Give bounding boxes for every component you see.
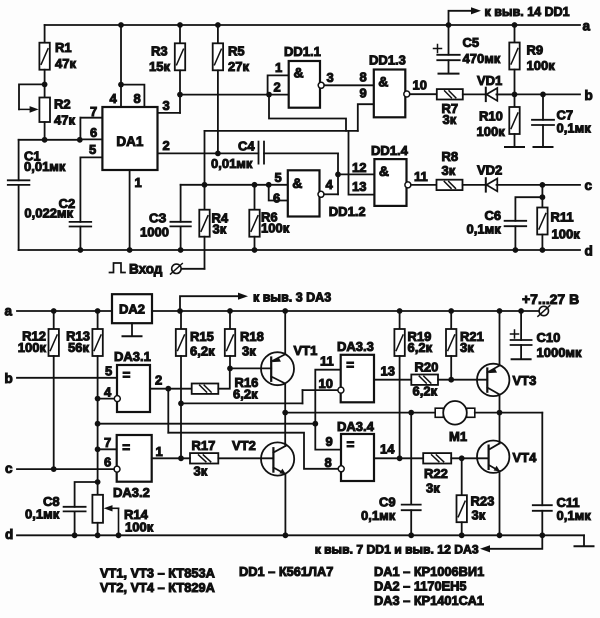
ground rail d [583, 535, 585, 546]
DA1 pin 2 [158, 152, 259, 154]
ground C10 [512, 358, 531, 360]
wire rail a (lower) +supply [17, 310, 112, 312]
svg-text:12: 12 [352, 160, 366, 175]
logic gate DD1.4 [374, 159, 406, 206]
svg-text:13: 13 [381, 364, 395, 379]
ground R10 [505, 146, 524, 148]
junction VT3 base [448, 377, 454, 383]
svg-text:R22: R22 [424, 466, 448, 481]
regulator DA2 [112, 294, 152, 323]
wire rail d (top) [19, 249, 580, 251]
svg-text:VD2: VD2 [477, 163, 502, 178]
capacitor C5 [448, 25, 450, 55]
wire to DD1.4 pin 13 [349, 131, 375, 195]
resistor R2 (trimmer) [44, 84, 46, 97]
DA3.3 output pin 13 [374, 379, 411, 381]
svg-text:8: 8 [325, 455, 332, 470]
svg-text:3к: 3к [194, 464, 208, 479]
svg-text:R11: R11 [551, 210, 574, 225]
svg-text:3к: 3к [242, 344, 256, 359]
comparator DA3.4 [341, 434, 374, 481]
svg-text:5: 5 [105, 364, 112, 379]
DA3.2 pin 7 [98, 448, 117, 450]
svg-text:47к: 47к [55, 56, 76, 71]
ground DA2 [131, 323, 133, 336]
svg-text:4: 4 [326, 177, 334, 192]
svg-text:3к: 3к [426, 481, 440, 496]
resistor R7 [437, 89, 463, 99]
wire VT4 emitter to rail d [499, 471, 501, 535]
svg-text:DD1.4: DD1.4 [371, 143, 409, 158]
transistor VT1 [261, 352, 294, 385]
svg-text:100к: 100к [477, 124, 506, 139]
wire R22 to VT4 base [451, 457, 488, 459]
svg-text:6: 6 [273, 191, 280, 206]
svg-text:2: 2 [163, 138, 170, 153]
svg-text:4: 4 [110, 91, 118, 106]
DA1 pin 7 [80, 117, 102, 119]
svg-text:5: 5 [275, 170, 282, 185]
motor M1 [435, 408, 443, 417]
svg-text:=: = [346, 358, 354, 373]
junction R1-R2 [42, 82, 48, 88]
wire stair pin2 node to Q line [269, 95, 346, 131]
svg-text:=: = [122, 440, 130, 455]
resistor R23 [461, 458, 463, 495]
svg-text:11: 11 [320, 354, 334, 369]
svg-text:6,2к: 6,2к [190, 344, 215, 359]
resistor R3 [177, 22, 183, 28]
DA1 pin 5 [80, 156, 102, 158]
svg-text:R10: R10 [479, 109, 503, 124]
logic gate DD1.1 [289, 61, 320, 108]
svg-text:27к: 27к [228, 59, 249, 74]
svg-text:9: 9 [360, 86, 367, 101]
svg-text:470мк: 470мк [463, 51, 501, 66]
wire Q to R4 node [204, 131, 206, 185]
resistor R16 [192, 384, 219, 394]
wire to DA3.3 pin 10 [181, 402, 303, 404]
svg-text:2: 2 [155, 373, 162, 388]
svg-text:к выв. 7 DD1 и выв. 12 DA3: к выв. 7 DD1 и выв. 12 DA3 [315, 543, 479, 557]
svg-text:VT2: VT2 [232, 438, 256, 453]
svg-text:R2: R2 [54, 97, 71, 112]
wire VD1 to rail b [497, 93, 515, 95]
svg-text:VT1: VT1 [294, 343, 318, 358]
DA1 pin 3 [158, 112, 181, 114]
svg-text:C4: C4 [238, 139, 255, 154]
svg-text:DD1.1: DD1.1 [284, 44, 321, 59]
svg-text:d: d [585, 244, 593, 259]
svg-text:3к: 3к [460, 340, 474, 355]
wire to DD1.3 pin 9 [358, 104, 374, 131]
svg-text:14: 14 [380, 442, 395, 457]
DD1.2 output bubble [318, 191, 324, 197]
svg-text:1: 1 [135, 175, 142, 190]
resistor R6 [254, 185, 256, 210]
svg-text:b: b [585, 88, 593, 103]
svg-text:c: c [585, 178, 593, 193]
svg-text:100к: 100к [527, 58, 556, 73]
wire to DD1.4 pin 12 [338, 173, 374, 175]
capacitor C11 [533, 504, 552, 506]
resistor R20 [411, 375, 438, 385]
terminal +7...27V [539, 306, 548, 315]
wire VT2 emitter to rail d [284, 474, 286, 535]
svg-text:0,1мк: 0,1мк [557, 508, 592, 523]
wire rail b (lower) [17, 377, 117, 379]
svg-text:0,1мк: 0,1мк [467, 222, 502, 237]
resistor R1 [44, 25, 46, 43]
resistor R22 [423, 453, 451, 463]
wire VT3 collector [499, 395, 501, 413]
svg-text:56к: 56к [68, 340, 89, 355]
svg-text:R8: R8 [442, 149, 459, 164]
ground C5 [439, 73, 459, 75]
resistor R14 (trimmer) [92, 495, 103, 523]
wire to DA3.4 pin 9 [315, 424, 341, 450]
svg-text:6,2к: 6,2к [408, 340, 433, 355]
svg-text:9: 9 [326, 434, 333, 449]
svg-text:3к: 3к [213, 222, 227, 237]
svg-text:R23: R23 [471, 494, 495, 509]
logic gate DD1.3 [374, 70, 406, 118]
wire VT1-VT2 collectors [284, 413, 286, 445]
transistor VT4 [477, 441, 509, 473]
svg-text:R18: R18 [240, 329, 264, 344]
comparator DA3.3 [341, 355, 374, 403]
svg-text:+7...27 В: +7...27 В [522, 291, 579, 307]
wire R20 to VT3 base [438, 379, 487, 381]
svg-text:d: d [5, 527, 13, 542]
svg-text:DA2: DA2 [119, 302, 145, 317]
svg-text:100к: 100к [261, 221, 290, 236]
resistor R12 [53, 311, 55, 329]
wire C4 down to DD1.2 out node [337, 153, 339, 194]
DA1 pin 6 [80, 138, 103, 140]
capacitor C6 [515, 197, 542, 221]
svg-text:DD1 – К561ЛА7: DD1 – К561ЛА7 [239, 564, 333, 579]
ground C7 [534, 146, 553, 148]
comparator DA3.2 [117, 435, 152, 482]
svg-text:7: 7 [90, 104, 97, 119]
svg-text:к выв. 3 DA3: к выв. 3 DA3 [253, 291, 331, 305]
svg-text:DA3.1: DA3.1 [114, 349, 151, 364]
svg-text:3к: 3к [472, 508, 486, 523]
DD1.3 output bubble [404, 91, 410, 97]
resistor R10 [514, 94, 516, 107]
svg-text:DA1: DA1 [116, 134, 143, 149]
wire motor right to VT3 collector [475, 412, 500, 414]
wire arrow to pin 3 DA3 [180, 296, 238, 311]
svg-text:b: b [5, 371, 13, 386]
wire VT4 collector to node [499, 413, 501, 444]
svg-text:VT2, VT4 – КТ829А: VT2, VT4 – КТ829А [100, 580, 215, 595]
svg-text:6,2к: 6,2к [233, 387, 258, 402]
wire reference divider [97, 399, 99, 495]
svg-text:10: 10 [319, 376, 333, 391]
wire rail b (top) [497, 93, 581, 95]
svg-text:4: 4 [104, 385, 112, 400]
capacitor C2 [70, 221, 92, 223]
DD1.2 pin 6 stub [269, 185, 288, 201]
svg-text:a: a [5, 304, 13, 319]
svg-text:0,1мк: 0,1мк [361, 508, 396, 523]
wire VT3 emitter to rail [499, 311, 501, 366]
svg-text:R3: R3 [151, 44, 168, 59]
DA3.1 pin 4 [95, 396, 101, 402]
wire node to DD1.1 pin 2 [180, 94, 289, 96]
wire DD1.2 out [324, 193, 338, 195]
svg-text:47к: 47к [54, 113, 75, 128]
svg-text:R20: R20 [415, 360, 439, 375]
wire top rail a [45, 24, 580, 26]
wire to C11 [500, 412, 543, 414]
transistor VT2 [261, 442, 294, 475]
wire DD1.3 out to R7 [410, 93, 437, 95]
capacitor C8 [75, 482, 98, 507]
resistor R9 [514, 25, 516, 43]
DA1 pin 1 to ground rail [129, 170, 131, 250]
resistor R17 [190, 453, 218, 463]
svg-text:8: 8 [134, 91, 141, 106]
svg-text:DA3.4: DA3.4 [337, 419, 375, 434]
svg-text:8: 8 [360, 70, 367, 85]
wire VT1 collector [284, 384, 286, 413]
DA1 pin 4 wire to rail a [120, 25, 122, 107]
svg-text:R1: R1 [55, 40, 72, 55]
wire tie outputs 2-1 [167, 389, 169, 433]
DD1.1 output bubble [318, 82, 324, 88]
R14 wiper to rail d [112, 507, 119, 509]
wire VT1 emitter to rail [284, 311, 286, 354]
wire arrow to pin 7 DD1 and pin 12 DA3 [487, 535, 542, 549]
svg-text:5: 5 [89, 142, 96, 157]
svg-text:R9: R9 [527, 43, 544, 58]
svg-text:&: & [292, 175, 302, 191]
wire DA3.2 out to R17 [152, 457, 190, 459]
junction reference to comparators [312, 421, 318, 427]
svg-text:=: = [347, 437, 355, 452]
wire rail c (top) [497, 184, 581, 186]
svg-text:6: 6 [90, 125, 97, 140]
wire output node to DA3.4 pin 8 [168, 433, 338, 469]
resistor R4 [204, 185, 206, 210]
svg-text:a: a [583, 19, 591, 34]
resistor R21 [450, 311, 452, 329]
input terminal Vhod [181, 268, 205, 270]
wire node R4 R6 DD1.2 pins 5,6 [181, 184, 288, 186]
svg-text:DD1.2: DD1.2 [329, 204, 366, 219]
wire to VT1 base [230, 367, 271, 369]
svg-text:1000: 1000 [140, 225, 169, 240]
svg-text:0,1мк: 0,1мк [25, 507, 60, 522]
DA3.3 pin 10 bubble [338, 387, 344, 393]
wire arrow to pin 14 DD1 [446, 22, 452, 28]
DA3.2 pin 6 bubble [114, 466, 120, 472]
svg-text:R17: R17 [192, 438, 216, 453]
diode VD2 [485, 178, 487, 191]
svg-text:10: 10 [413, 78, 427, 93]
svg-text:VD1: VD1 [477, 73, 502, 88]
op-amp timer DA1 [102, 107, 157, 170]
resistor R5 [215, 22, 221, 28]
capacitor C1 [18, 140, 20, 181]
transistor VT3 [477, 364, 509, 396]
svg-text:100к: 100к [552, 227, 581, 242]
svg-text:3к: 3к [442, 163, 456, 178]
svg-text:DD1.3: DD1.3 [369, 53, 406, 68]
svg-text:13: 13 [352, 179, 366, 194]
DA3.4 output pin 14 [374, 457, 423, 459]
svg-text:1: 1 [275, 60, 282, 75]
wire R7 to VD1 [463, 93, 485, 95]
junction C8 branch [95, 479, 101, 485]
wire DD1.4 out to R8 [411, 184, 437, 186]
svg-text:DA3 – КР1401СА1: DA3 – КР1401СА1 [374, 593, 484, 608]
capacitor C3 [180, 185, 182, 222]
DA3.4 pin 8 bubble [338, 466, 344, 472]
svg-text:&: & [294, 65, 304, 81]
wire Q line [205, 130, 358, 132]
svg-text:100к: 100к [125, 520, 154, 535]
wire DD1.1 out to DD1.3 pin 8 [324, 84, 374, 86]
wire M1 node to C9 [410, 413, 412, 505]
DD1.1 pins 1,2 tie box [268, 75, 289, 94]
svg-text:DA2 – 1170ЕН5: DA2 – 1170ЕН5 [374, 579, 466, 594]
svg-text:0,01мк: 0,01мк [24, 159, 66, 174]
wire R2-DA1 pins 6,7 [19, 139, 80, 141]
svg-text:6,2к: 6,2к [413, 384, 438, 399]
wire reference node line [98, 423, 316, 425]
svg-text:M1: M1 [449, 429, 467, 444]
svg-text:VT3: VT3 [513, 373, 537, 388]
svg-text:7: 7 [104, 435, 111, 450]
svg-text:0,022мк: 0,022мк [24, 206, 73, 221]
svg-text:3: 3 [163, 98, 170, 113]
junction VT1 base [227, 366, 233, 372]
svg-text:2: 2 [274, 80, 281, 95]
svg-text:&: & [378, 74, 388, 90]
svg-text:СЗ: СЗ [149, 211, 166, 226]
svg-text:к выв. 14 DD1: к выв. 14 DD1 [485, 5, 570, 19]
svg-text:11: 11 [414, 169, 428, 184]
svg-text:3к: 3к [443, 112, 457, 127]
svg-text:DA3.2: DA3.2 [113, 485, 150, 500]
diode VD1 [485, 88, 487, 101]
wire R17 to VT2 base [218, 457, 273, 459]
capacitor C4 [258, 142, 260, 164]
resistor R11 [537, 208, 547, 235]
wire motor left [285, 412, 435, 414]
comparator DA3.1 [117, 365, 150, 412]
svg-text:Вход: Вход [129, 262, 163, 277]
capacitor C7 [542, 94, 544, 119]
svg-text:C5: C5 [463, 35, 480, 50]
wire R8 to VD2 [463, 184, 485, 186]
resistor R8 [437, 180, 463, 190]
junction R3-DA1.3 node [177, 92, 183, 98]
wire rail d (lower) [17, 534, 584, 536]
DD1.4 output bubble [405, 182, 411, 188]
wire rail c (lower) [17, 468, 114, 470]
capacitor C9 [402, 504, 421, 506]
svg-text:R5: R5 [228, 44, 245, 59]
wire R15 node down to R17 wire [180, 403, 182, 458]
svg-text:DA1 – КР1006ВИ1: DA1 – КР1006ВИ1 [374, 564, 484, 579]
svg-text:VT1, VT3 – КТ853А: VT1, VT3 – КТ853А [100, 566, 215, 581]
svg-text:15к: 15к [149, 59, 170, 74]
svg-text:DA3.3: DA3.3 [337, 339, 374, 354]
DA3.1 output pin 2 [150, 388, 192, 390]
logic gate DD1.2 [288, 170, 320, 216]
svg-text:6: 6 [104, 455, 111, 470]
resistor R13 [97, 311, 99, 329]
wire c to R11 [541, 185, 543, 208]
svg-text:VT4: VT4 [513, 450, 538, 465]
junction motor left node [282, 410, 288, 416]
resistor R15 [180, 311, 182, 329]
svg-text:1000мк: 1000мк [537, 345, 583, 360]
svg-text:C10: C10 [537, 330, 561, 345]
svg-text:c: c [5, 461, 13, 476]
DA1 pin 8 notch [118, 82, 124, 88]
svg-text:3: 3 [327, 70, 334, 85]
resistor R18 [229, 311, 231, 329]
svg-text:1: 1 [156, 444, 163, 459]
svg-text:R15: R15 [190, 329, 214, 344]
resistor R19 [399, 311, 401, 329]
svg-text:0,1мк: 0,1мк [557, 121, 592, 136]
wire to DA3.3 pin 11 [315, 370, 340, 424]
svg-text:0,01мк: 0,01мк [211, 156, 253, 171]
wire VT2 collector [284, 444, 286, 446]
svg-text:100к: 100к [18, 340, 47, 355]
svg-text:=: = [123, 368, 131, 383]
junction R2 bottom node [42, 137, 48, 143]
capacitor C10 [520, 311, 522, 340]
svg-text:&: & [379, 163, 389, 179]
